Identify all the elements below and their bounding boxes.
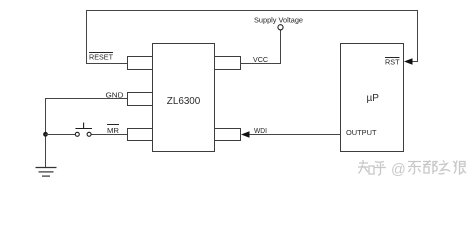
junction dot xyxy=(43,132,48,137)
svg-text:WDI: WDI xyxy=(254,126,267,135)
glyph zhi2 xyxy=(439,161,451,174)
svg-text:Supply Voltage: Supply Voltage xyxy=(254,15,303,24)
pin RST label xyxy=(385,57,400,66)
arrow into WDI xyxy=(241,131,250,137)
wire: VCC wire xyxy=(241,63,282,65)
pin VCC stub xyxy=(215,57,241,70)
wire: supply vertical xyxy=(280,30,282,64)
glyph du xyxy=(423,161,437,175)
glyph hu xyxy=(374,162,386,176)
arrow into RST xyxy=(404,58,413,64)
svg-text:VCC: VCC xyxy=(253,55,268,64)
wire: WDI to OUTPUT xyxy=(249,134,341,136)
pin WDI stub xyxy=(215,129,241,141)
node RESET label xyxy=(89,53,113,62)
wire: ground branch vertical xyxy=(45,98,47,167)
node MR label xyxy=(107,125,120,136)
pin GND stub xyxy=(128,93,153,106)
wire: outer reset loop (RESET pin up, across top, down to RST) xyxy=(87,11,418,64)
svg-text:OUTPUT: OUTPUT xyxy=(346,128,377,137)
glyph lang xyxy=(453,161,466,175)
ground xyxy=(36,168,57,177)
switch S1 pushbutton xyxy=(75,123,92,137)
watermark: zhihu @dongduzhilang xyxy=(358,160,466,178)
wire: MR wire left segment xyxy=(45,134,75,136)
svg-text:RESET: RESET xyxy=(89,53,113,62)
svg-text:ZL6300: ZL6300 xyxy=(167,96,201,107)
pin RESET stub xyxy=(128,57,153,70)
wire: GND pin wire xyxy=(45,98,128,100)
node Supply Voltage terminal xyxy=(278,25,283,30)
wire: MR wire right segment xyxy=(91,134,128,136)
svg-text:MR: MR xyxy=(107,126,120,135)
svg-text:@: @ xyxy=(391,162,406,178)
IC U1 ZL6300 body xyxy=(153,44,215,152)
pin MR stub xyxy=(128,129,153,141)
IC U2 microprocessor body xyxy=(341,44,404,152)
svg-text:µP: µP xyxy=(367,93,380,104)
glyph zhi xyxy=(358,160,374,174)
glyph dong xyxy=(408,162,421,175)
wire: RESET pin wire xyxy=(86,63,128,65)
svg-text:RST: RST xyxy=(385,57,400,66)
svg-text:GND: GND xyxy=(106,90,125,99)
